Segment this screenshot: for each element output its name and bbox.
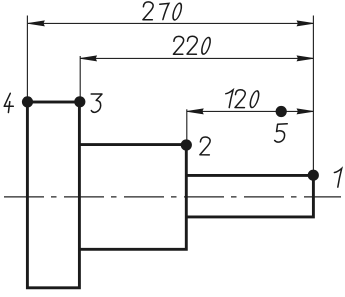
arrow 270 left — [28, 21, 44, 26]
extension line at node 4 — [26, 16, 28, 103]
node 3 dot — [74, 96, 85, 107]
node 1 dot — [308, 170, 319, 181]
arrow 270 right — [297, 21, 313, 26]
point label 2 — [200, 137, 210, 155]
middle step outline — [79, 145, 186, 250]
point label 5 — [275, 124, 288, 142]
extension line at node 2 — [186, 109, 188, 145]
arrow 120 right — [297, 109, 313, 114]
dimension line 270 — [28, 22, 313, 24]
dimension line 220 — [80, 57, 313, 59]
node 2 dot — [181, 139, 192, 150]
value label 270 — [143, 2, 183, 20]
arrow 220 right — [297, 56, 313, 61]
arrow 220 left — [80, 56, 96, 61]
extension line at node 3 — [79, 56, 81, 102]
node 4 dot — [22, 96, 33, 107]
centerline (dash-dot axis) — [4, 196, 341, 198]
point label 4 — [4, 93, 13, 112]
dimension line 120 — [187, 110, 314, 112]
extension line at node 1 (right side) — [312, 16, 314, 176]
point label 1 — [334, 168, 341, 187]
point label 3 — [91, 94, 102, 112]
arrow 120 left — [187, 109, 203, 114]
right step outline — [186, 175, 313, 217]
node 5 dot — [276, 106, 287, 117]
value label 120 — [226, 90, 261, 108]
flange outline (left large step) — [27, 102, 79, 288]
value label 220 — [173, 36, 211, 54]
